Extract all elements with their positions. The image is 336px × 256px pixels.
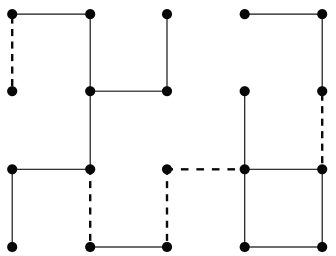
wire B2-C2 (solid) bbox=[90, 90, 167, 92]
wire D2-D3 (solid) bbox=[244, 91, 246, 169]
node A1 bbox=[7, 9, 17, 19]
node C1 bbox=[162, 9, 172, 19]
wire A1-B1 (solid) bbox=[12, 13, 90, 15]
node B3 bbox=[85, 164, 95, 174]
wire A1-A2 (dashed) bbox=[11, 14, 13, 91]
wire D4-E4 (solid) bbox=[245, 246, 323, 248]
node E3 bbox=[317, 164, 327, 174]
node A3 bbox=[7, 164, 17, 174]
node A2 bbox=[7, 86, 17, 96]
node A4 bbox=[7, 242, 17, 252]
wire C3-D3 (dashed) bbox=[167, 168, 245, 170]
wire B2-B3 (solid) bbox=[89, 91, 91, 169]
wire D3-D4 (solid) bbox=[244, 169, 246, 247]
node B4 bbox=[85, 242, 95, 252]
wire C3-C4 (dashed) bbox=[166, 169, 168, 247]
node E4 bbox=[317, 242, 327, 252]
wire D1-E1 (solid) bbox=[245, 13, 323, 15]
wire A3-A4 (solid) bbox=[11, 169, 13, 247]
wire E1-E2 (solid) bbox=[321, 14, 323, 91]
node D1 bbox=[240, 9, 250, 19]
node D2 bbox=[240, 86, 250, 96]
wire A3-B3 (solid) bbox=[12, 168, 90, 170]
node E2 bbox=[317, 86, 327, 96]
node C2 bbox=[162, 86, 172, 96]
node B2 bbox=[85, 86, 95, 96]
node E1 bbox=[317, 9, 327, 19]
wire E3-E4 (solid) bbox=[321, 169, 323, 247]
wire B4-C4 (solid) bbox=[90, 246, 167, 248]
wire C1-C2 (solid) bbox=[166, 14, 168, 91]
node D4 bbox=[240, 242, 250, 252]
wire B1-B2 (solid) bbox=[89, 14, 91, 91]
node C3 bbox=[162, 164, 172, 174]
wire D3-E3 (solid) bbox=[245, 168, 323, 170]
wire E2-E3 (dashed) bbox=[321, 91, 323, 169]
node C4 bbox=[162, 242, 172, 252]
node B1 bbox=[85, 9, 95, 19]
node D3 bbox=[240, 164, 250, 174]
wire B3-B4 (dashed) bbox=[89, 169, 91, 247]
